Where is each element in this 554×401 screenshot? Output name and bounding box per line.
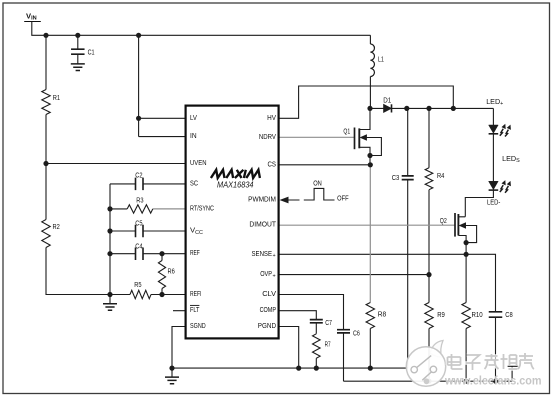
svg-text:R5: R5 (134, 280, 141, 289)
svg-text:Q1: Q1 (343, 126, 350, 135)
svg-text:PWMDIM: PWMDIM (248, 195, 276, 204)
svg-text:PGND: PGND (258, 321, 277, 330)
svg-text:LV: LV (190, 113, 198, 122)
svg-text:SGND: SGND (190, 321, 206, 330)
svg-text:SC: SC (190, 178, 198, 187)
svg-text:+: + (273, 273, 276, 279)
svg-text:R1: R1 (53, 93, 60, 102)
svg-text:C4: C4 (135, 241, 143, 250)
svg-text:RT/SYNC: RT/SYNC (190, 203, 214, 212)
svg-text:C6: C6 (353, 328, 360, 337)
svg-text:www.elecfans.com: www.elecfans.com (444, 374, 542, 388)
svg-text:OVP: OVP (260, 269, 272, 278)
svg-text:C7: C7 (325, 318, 332, 327)
svg-text:R3: R3 (136, 195, 143, 204)
svg-text:C3: C3 (392, 173, 400, 182)
svg-text:CS: CS (268, 159, 277, 168)
svg-text:R10: R10 (472, 310, 483, 319)
svg-text:C5: C5 (135, 219, 142, 228)
svg-text:REFI: REFI (190, 289, 201, 298)
svg-text:C8: C8 (505, 310, 512, 319)
svg-text:Q2: Q2 (440, 216, 447, 225)
svg-text:SENSE: SENSE (252, 249, 273, 258)
svg-text:R4: R4 (437, 171, 445, 180)
svg-text:C2: C2 (135, 170, 142, 179)
svg-text:CLV: CLV (262, 289, 277, 298)
svg-text:HV: HV (267, 113, 277, 122)
svg-text:MAX16834: MAX16834 (217, 181, 254, 190)
svg-text:D1: D1 (383, 96, 391, 105)
svg-text:ON: ON (313, 178, 322, 187)
svg-text:IN: IN (190, 131, 197, 140)
svg-text:LED-: LED- (487, 197, 501, 206)
svg-text:R2: R2 (53, 222, 60, 231)
svg-text:DIMOUT: DIMOUT (249, 220, 276, 229)
svg-text:COMP: COMP (260, 305, 276, 314)
svg-text:R6: R6 (168, 266, 175, 275)
svg-text:+: + (273, 253, 276, 259)
svg-text:UVEN: UVEN (190, 158, 207, 167)
svg-text:C1: C1 (88, 47, 95, 56)
svg-text:R9: R9 (437, 310, 445, 319)
svg-text:L1: L1 (378, 55, 384, 64)
svg-text:R7: R7 (325, 339, 331, 348)
svg-text:NDRV: NDRV (259, 132, 277, 141)
svg-text:OFF: OFF (337, 194, 349, 203)
svg-text:REF: REF (190, 248, 200, 257)
svg-text:R8: R8 (378, 309, 387, 318)
svg-text:FLT: FLT (190, 305, 200, 314)
